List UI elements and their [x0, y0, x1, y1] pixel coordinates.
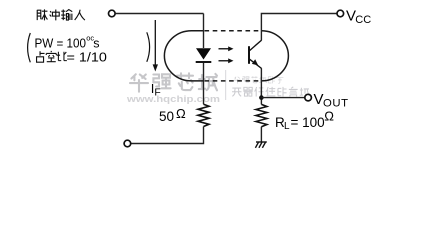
svg-text:www.hqchip.com: www.hqchip.com — [126, 94, 220, 105]
svg-text:Ω: Ω — [176, 106, 186, 121]
svg-text:Ω: Ω — [324, 109, 334, 124]
wire: junction to VOUT terminal — [261, 97, 304, 99]
svg-text:V: V — [314, 91, 324, 108]
wire: top input terminal to LED anode — [116, 13, 204, 15]
wire: emitter down to RL — [260, 68, 262, 104]
svg-text:CC: CC — [355, 14, 371, 26]
svg-text:= 100: = 100 — [291, 115, 325, 130]
resistor 50 ohm — [198, 104, 209, 126]
current arrow IF — [154, 20, 156, 65]
ground — [255, 142, 266, 148]
wire: collector to VCC rail — [261, 14, 337, 41]
phototransistor Q1 — [248, 46, 250, 64]
wire: 50 ohm resistor to bottom rail — [131, 127, 204, 144]
wire: RL to ground — [260, 127, 262, 142]
input terminal (bottom) — [124, 140, 131, 147]
brace ) — [147, 32, 150, 62]
svg-text:= 1/10: = 1/10 — [67, 49, 107, 64]
brace ( — [28, 33, 31, 62]
node: junction dot — [259, 95, 264, 100]
label duty 占空比 = 1/10 — [37, 51, 67, 62]
svg-text:50: 50 — [159, 109, 174, 124]
input terminal (top) — [109, 10, 116, 17]
svg-text:PW = 100: PW = 100 — [35, 36, 87, 51]
VCC terminal — [337, 10, 344, 17]
VOUT terminal — [305, 94, 312, 101]
label pulse input 脉冲输入 — [37, 9, 85, 20]
resistor RL — [256, 104, 267, 126]
LED D1 — [203, 14, 205, 49]
optocoupler package outline — [164, 31, 204, 81]
svg-text:L: L — [284, 121, 290, 132]
light arrows — [219, 46, 234, 63]
